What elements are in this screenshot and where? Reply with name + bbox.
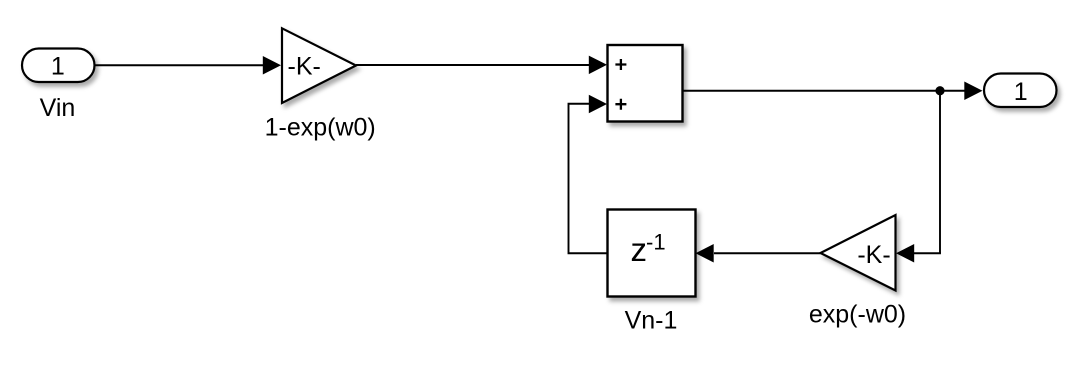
outport block 1 [984, 74, 1057, 108]
svg-text:Vin: Vin [40, 94, 76, 122]
wire inport to gain1 [96, 64, 265, 66]
arrowhead into unit delay [696, 244, 714, 263]
feedback wire junction down [939, 91, 941, 254]
arrowhead into gain2 [896, 244, 914, 263]
svg-text:-K-: -K- [857, 241, 890, 269]
wire gain1 to sum input 1 [356, 64, 590, 66]
wire gain2 to unit delay [714, 252, 821, 254]
wire sum output to junction and outport [683, 90, 966, 92]
arrowhead into sum input 2 [589, 95, 607, 114]
arrowhead into outport [964, 82, 982, 101]
feedback wire delay output left segment [569, 104, 608, 254]
svg-text:1: 1 [1014, 78, 1028, 106]
unit delay block z^-1 [608, 210, 696, 297]
junction node dot [935, 86, 944, 95]
svg-text:z: z [631, 231, 648, 268]
svg-text:exp(-w0): exp(-w0) [809, 301, 906, 329]
svg-text:-1: -1 [646, 230, 666, 255]
svg-text:Vn-1: Vn-1 [625, 306, 678, 334]
gain block U2 (-K-) pointing left [821, 215, 896, 291]
svg-text:-K-: -K- [288, 52, 321, 80]
svg-text:1: 1 [51, 53, 65, 81]
sum plus sign input 1 [615, 59, 626, 70]
gain block U1 (-K-) [282, 28, 356, 103]
inport block Vin [22, 49, 95, 83]
sum block [608, 45, 683, 122]
wire down-left into gain2 [914, 252, 941, 254]
arrowhead into gain1 [263, 56, 281, 75]
svg-text:1-exp(w0): 1-exp(w0) [265, 114, 376, 142]
sum plus sign input 2 [615, 99, 626, 110]
arrowhead into sum input 1 [589, 56, 607, 75]
